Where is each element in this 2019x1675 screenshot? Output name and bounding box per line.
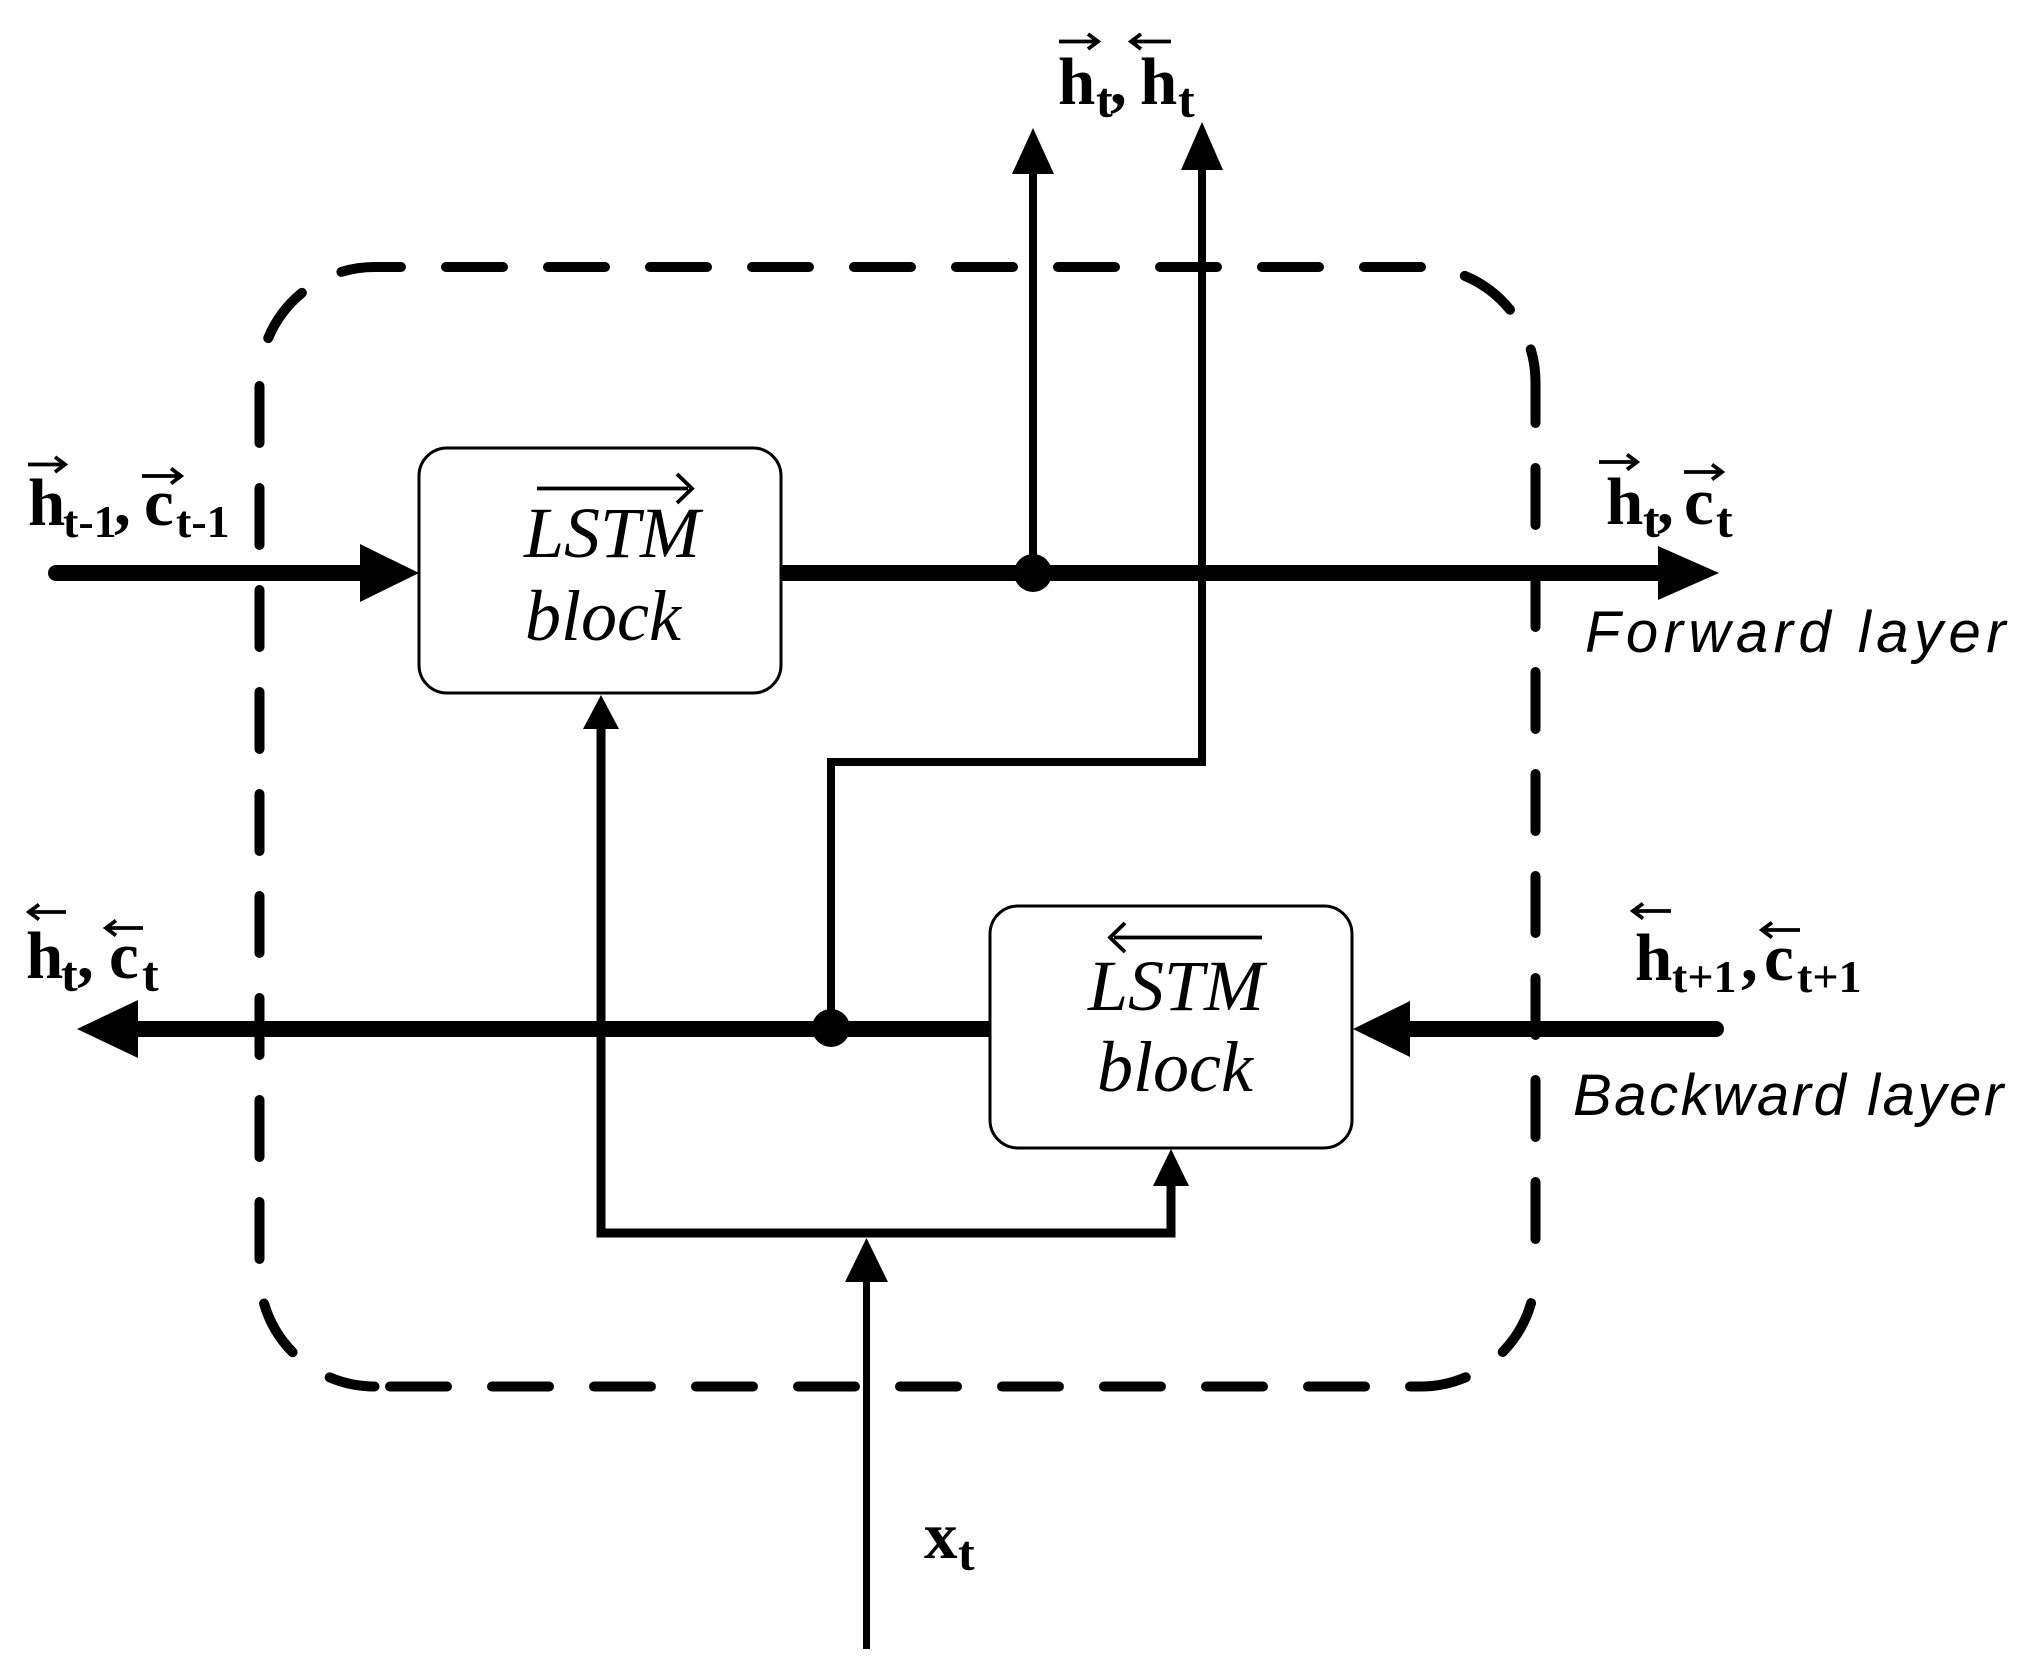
svg-text:t: t <box>958 1525 975 1581</box>
svg-text:h: h <box>1140 45 1177 119</box>
svg-text:h: h <box>1635 921 1672 995</box>
svg-text:Forward layer: Forward layer <box>1585 600 2011 665</box>
svg-text:t-1: t-1 <box>63 496 117 547</box>
svg-text:,: , <box>77 919 94 993</box>
svg-text:c: c <box>109 919 139 993</box>
svg-text:,: , <box>1110 45 1127 119</box>
svg-text:t-1: t-1 <box>176 496 230 547</box>
svg-text:x: x <box>924 1499 958 1573</box>
svg-text:t: t <box>1716 492 1733 548</box>
svg-text:,: , <box>1741 921 1758 995</box>
svg-text:Backward layer: Backward layer <box>1573 1063 2006 1128</box>
svg-text:t: t <box>1178 72 1195 128</box>
svg-text:LSTM: LSTM <box>1087 946 1268 1026</box>
svg-text:c: c <box>1764 921 1794 995</box>
svg-text:block: block <box>1097 1027 1255 1107</box>
svg-text:c: c <box>1684 465 1714 539</box>
svg-text:,: , <box>1657 465 1674 539</box>
svg-text:,: , <box>114 466 131 540</box>
svg-text:h: h <box>1058 45 1095 119</box>
svg-text:t: t <box>142 946 159 1002</box>
svg-text:LSTM: LSTM <box>523 493 704 573</box>
svg-text:t+1: t+1 <box>1797 951 1862 1002</box>
svg-text:h: h <box>28 466 65 540</box>
svg-text:h: h <box>26 919 63 993</box>
svg-text:h: h <box>1606 465 1643 539</box>
svg-text:t: t <box>61 946 78 1002</box>
svg-text:block: block <box>525 576 683 656</box>
svg-text:t+1: t+1 <box>1672 951 1737 1002</box>
